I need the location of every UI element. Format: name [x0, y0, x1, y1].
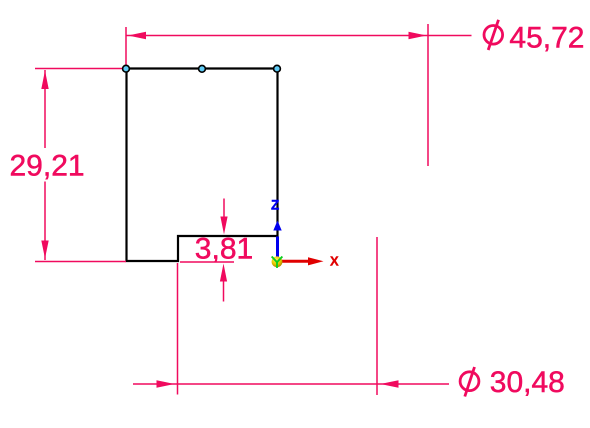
svg-text:45,72: 45,72 — [509, 22, 584, 55]
arrow down of 29.21 — [41, 241, 48, 259]
sketch point middle — [199, 65, 206, 72]
sketch point left — [123, 65, 130, 72]
arrow right-pointing of phi30.48 — [157, 380, 175, 388]
arrow up of 3.81 — [220, 264, 227, 282]
diameter symbol of 45,72 — [484, 20, 503, 50]
svg-text:30,48: 30,48 — [490, 366, 565, 399]
dimension extension line top-right — [427, 24, 429, 166]
dimension line phi30.48 — [133, 383, 449, 385]
X axis shaft — [278, 260, 309, 263]
Z axis shaft — [276, 237, 279, 261]
arrow left of phi45.72 — [128, 32, 146, 39]
dimension extension line top-left — [125, 27, 127, 66]
arrow right of phi45.72 — [409, 32, 427, 39]
Z axis arrowhead — [273, 221, 281, 231]
sketch point right — [274, 65, 281, 72]
dimension line 29.21 upper segment — [44, 70, 46, 148]
leader below 3.81 — [223, 281, 225, 302]
svg-text:29,21: 29,21 — [10, 150, 85, 183]
profile outline — [127, 69, 278, 262]
leader above 3.81 — [223, 199, 225, 219]
extension line left-top 29.21 — [35, 68, 122, 70]
svg-text:Z: Z — [271, 198, 279, 213]
dimension line 29.21 lower segment — [44, 182, 46, 261]
arrow down of 3.81 — [220, 217, 227, 235]
X axis arrowhead — [308, 257, 324, 265]
diameter symbol of 30,48 — [460, 367, 479, 397]
extension line left-bottom 29.21 — [35, 261, 126, 263]
svg-text:3,81: 3,81 — [195, 233, 253, 266]
extension line right of 3.81 — [180, 261, 234, 263]
extension line bottom-right phi30.48 — [376, 237, 378, 395]
arrow left-pointing of phi30.48 — [381, 380, 399, 388]
arrow up of 29.21 — [41, 71, 48, 90]
svg-text:X: X — [330, 254, 339, 269]
extension line bottom-left phi30.48 — [177, 263, 179, 395]
dimension line phi45.72 — [127, 35, 472, 37]
